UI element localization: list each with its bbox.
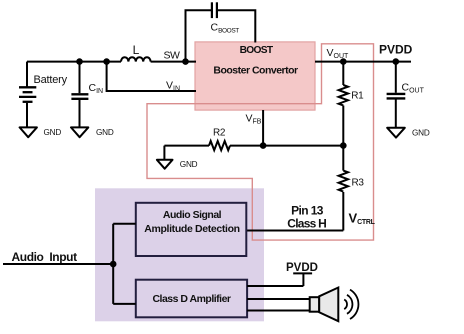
wire class D to speaker (plus) <box>247 298 310 300</box>
capacitor CBOOST <box>212 2 217 18</box>
wire stub to amplitude detection <box>113 223 136 225</box>
resistor R2 <box>209 141 230 150</box>
class D amplifier block <box>136 280 247 318</box>
highlight outline (red staircase polygon) <box>147 44 374 240</box>
wire VOUT rail <box>315 61 411 63</box>
svg-text:R2: R2 <box>213 128 226 139</box>
audio signal amplitude detection block <box>136 203 247 256</box>
svg-text:SW: SW <box>163 50 180 62</box>
resistor R3 <box>339 146 348 231</box>
booster converter block U1 <box>195 42 315 110</box>
wire VFB branch <box>262 110 264 146</box>
wire class D to PVDD <box>247 285 303 287</box>
wire GND drop (R2) <box>163 146 165 160</box>
svg-text:GND: GND <box>412 128 430 137</box>
capacitor COUT <box>387 62 406 128</box>
wire to CBOOST left <box>186 10 212 61</box>
ground (battery) <box>20 127 37 137</box>
node junction VFB <box>260 142 267 149</box>
wire audio input <box>3 263 113 265</box>
inductor L <box>121 57 151 61</box>
svg-text:Audio Signal: Audio Signal <box>163 209 222 221</box>
svg-text:GND: GND <box>44 128 62 137</box>
svg-text:PVDD: PVDD <box>286 262 318 274</box>
svg-text:Amplitude Detection: Amplitude Detection <box>144 223 239 235</box>
speaker sound waves <box>344 290 358 319</box>
PVDD supply tap <box>293 273 312 286</box>
node junction audio input <box>110 261 117 268</box>
svg-text:R1: R1 <box>351 91 364 102</box>
capacitor CIN <box>71 62 88 127</box>
ground (R2) <box>157 160 173 169</box>
node SW junction <box>182 58 189 65</box>
node junction VIN branch <box>103 58 110 65</box>
node junction COUT top <box>393 58 400 65</box>
purple highlight region (audio section) <box>95 188 264 321</box>
wire R2 rail right <box>230 145 343 147</box>
svg-text:R3: R3 <box>352 178 365 189</box>
node junction R1 top <box>340 58 347 65</box>
wire VCTRL to amplitude detection <box>247 230 343 232</box>
wire class D to speaker (minus) <box>247 310 310 312</box>
wire R2 rail left <box>164 145 209 147</box>
svg-text:Battery: Battery <box>34 74 68 86</box>
wire top rail battery to inductor <box>27 61 121 63</box>
speaker LS1 <box>310 288 339 322</box>
ground (COUT) <box>387 128 405 138</box>
svg-text:GND: GND <box>96 128 114 137</box>
svg-text:BOOST: BOOST <box>240 45 274 56</box>
node junction battery/CIN <box>76 58 83 65</box>
wire CBOOST right to BOOST pin <box>218 10 255 42</box>
svg-text:Audio Input: Audio Input <box>12 250 78 264</box>
wire VIN branch <box>107 62 196 91</box>
wire audio split vertical <box>112 224 114 304</box>
battery B1 <box>19 62 36 127</box>
svg-text:GND: GND <box>180 160 198 169</box>
svg-text:Pin 13: Pin 13 <box>291 204 324 218</box>
resistor R1 <box>339 62 348 146</box>
svg-text:Class D Amplifier: Class D Amplifier <box>152 293 230 305</box>
ground (CIN) <box>71 127 88 137</box>
svg-text:L: L <box>133 43 140 57</box>
node junction R1/R3 <box>340 142 347 149</box>
wire SW: inductor to converter <box>151 61 196 63</box>
wire stub to class D <box>113 303 136 305</box>
svg-text:Booster Convertor: Booster Convertor <box>213 65 298 77</box>
svg-text:PVDD: PVDD <box>379 43 413 57</box>
svg-text:Class H: Class H <box>287 216 326 230</box>
